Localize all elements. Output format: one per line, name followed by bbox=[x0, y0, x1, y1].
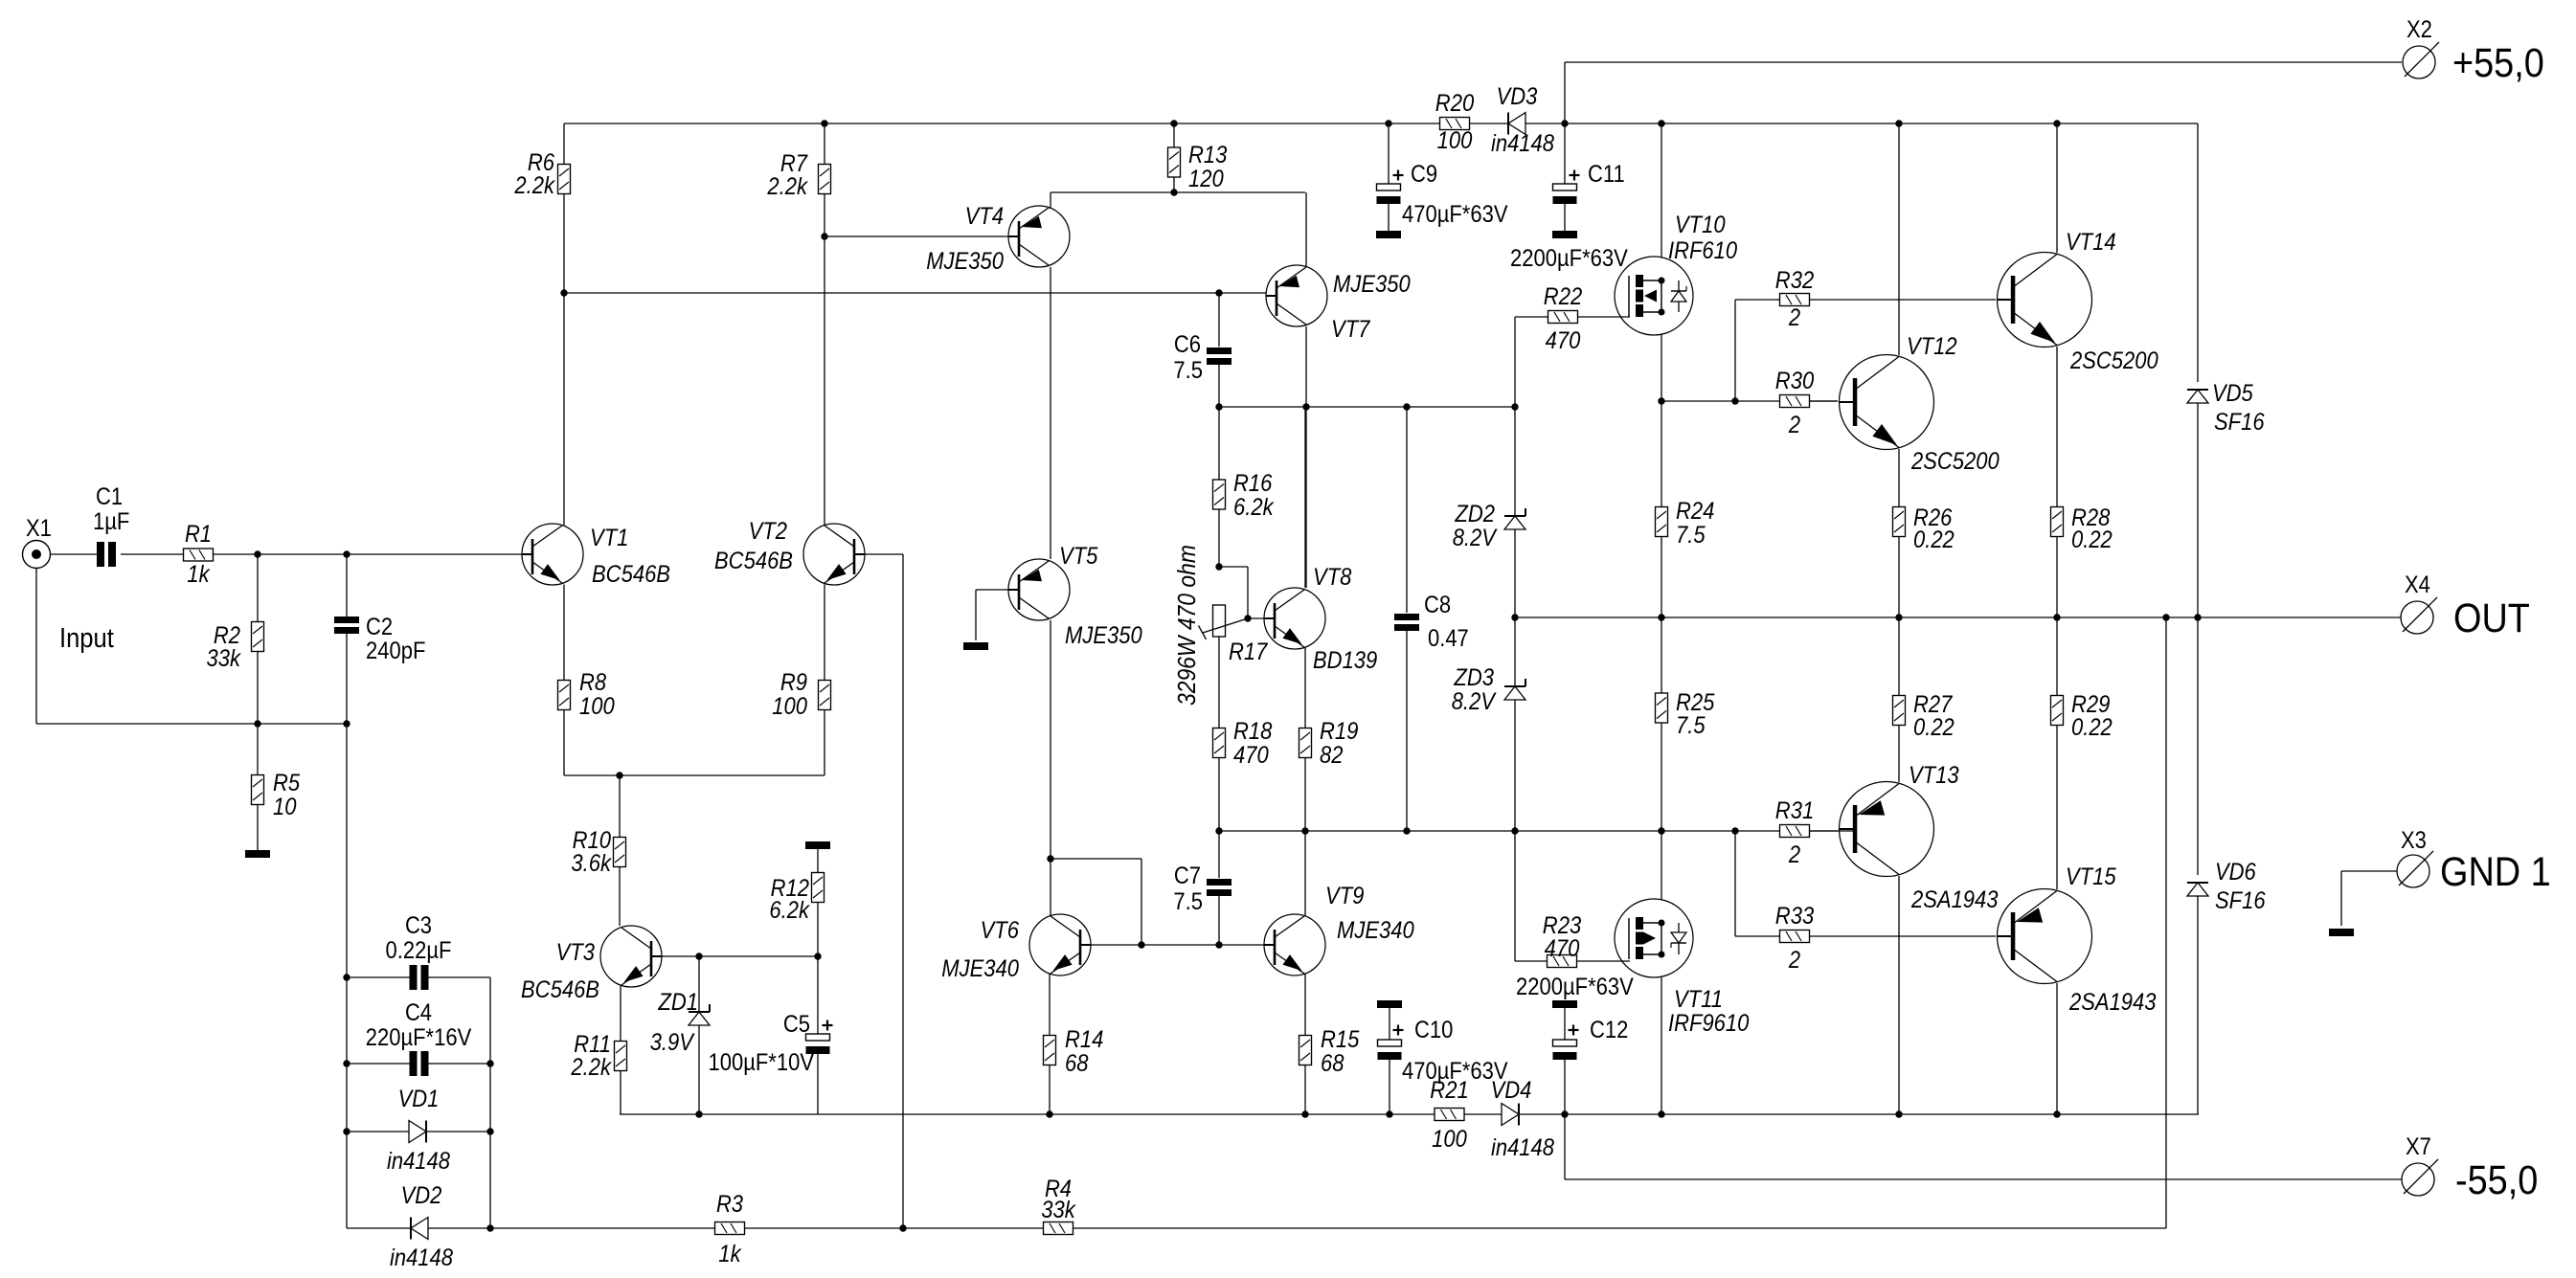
resistor R19 bbox=[1299, 718, 1359, 769]
capacitor C11 bbox=[1553, 170, 1580, 205]
svg-text:2: 2 bbox=[1788, 841, 1800, 868]
wire VT8 collector up bbox=[1304, 407, 1306, 588]
wire VT10 source down bbox=[1661, 335, 1662, 401]
resistor R12 bbox=[769, 873, 824, 925]
svg-text:BC546B: BC546B bbox=[714, 548, 793, 574]
wire VT9 emitter down bbox=[1304, 975, 1306, 1037]
wire VT3 base line bbox=[662, 955, 818, 957]
wire C8 top stub bbox=[1406, 407, 1408, 613]
node VT11 rail bbox=[1658, 1110, 1664, 1117]
wire VD5 to OUT bbox=[2197, 403, 2199, 617]
node C6 top bbox=[1215, 289, 1222, 296]
capacitor C10 bbox=[1378, 1025, 1404, 1061]
wire VT14 collector bbox=[2056, 123, 2058, 253]
wire R22 gate link bbox=[1578, 316, 1630, 318]
transistor VT13 bbox=[1840, 762, 1999, 913]
svg-text:220µF*16V: 220µF*16V bbox=[366, 1024, 472, 1051]
resistor R14 bbox=[1044, 1026, 1104, 1077]
resistor R33 bbox=[1775, 903, 1814, 974]
terminal X3 bbox=[2397, 855, 2429, 887]
wire VT1 collector up bbox=[563, 293, 565, 526]
svg-text:C3: C3 bbox=[405, 912, 432, 939]
resistor R25 bbox=[1656, 689, 1715, 739]
svg-text:VT14: VT14 bbox=[2066, 229, 2116, 256]
svg-text:C6: C6 bbox=[1174, 331, 1201, 358]
wire C2 bottom stub bbox=[346, 634, 348, 724]
svg-text:BD139: BD139 bbox=[1313, 647, 1377, 674]
diode VD5 bbox=[2187, 390, 2208, 403]
svg-text:0.22: 0.22 bbox=[1913, 714, 1955, 741]
node VT1 collector junction bbox=[560, 289, 567, 296]
svg-text:7.5: 7.5 bbox=[1173, 888, 1203, 915]
svg-text:1µF: 1µF bbox=[93, 508, 129, 535]
wire R29 top stub bbox=[2056, 617, 2058, 696]
node C7 bottom bbox=[1215, 941, 1222, 948]
svg-text:0.22: 0.22 bbox=[2071, 714, 2113, 741]
svg-text:VT5: VT5 bbox=[1059, 543, 1097, 570]
wire VT6-VT9 base line bbox=[1090, 944, 1266, 946]
svg-text:VD3: VD3 bbox=[1497, 83, 1538, 110]
svg-text:7.5: 7.5 bbox=[1676, 522, 1706, 549]
bar above C12 bbox=[1552, 1000, 1577, 1008]
node C8 bottom bbox=[1403, 827, 1410, 834]
svg-text:ZD2: ZD2 bbox=[1455, 501, 1496, 527]
wire C12 top stub bbox=[1564, 1008, 1566, 1040]
svg-text:in4148: in4148 bbox=[390, 1244, 453, 1271]
resistor R28 bbox=[2051, 504, 2113, 553]
wire ZD1 top stub bbox=[698, 956, 700, 1012]
capacitor C1 bbox=[97, 542, 116, 567]
svg-text:470: 470 bbox=[1233, 742, 1269, 769]
resistor R16 bbox=[1213, 470, 1275, 521]
wire R17 to R18 bbox=[1218, 637, 1220, 728]
wire bias rail right bbox=[1519, 1113, 2199, 1115]
svg-text:X3: X3 bbox=[2401, 827, 2427, 854]
node R3-R4 junction bbox=[899, 1224, 906, 1231]
svg-text:in4148: in4148 bbox=[1491, 130, 1554, 157]
wire R25 bottom stub bbox=[1661, 723, 1662, 831]
node R1-R2 junction bbox=[254, 550, 260, 557]
wire R24 top stub bbox=[1661, 401, 1662, 507]
wire top rail bbox=[564, 123, 2198, 124]
transistor VT15 bbox=[1998, 863, 2157, 1016]
svg-text:R16: R16 bbox=[1233, 470, 1272, 497]
svg-text:VT15: VT15 bbox=[2066, 863, 2116, 890]
wire ZD1 bottom stub bbox=[698, 1025, 700, 1114]
wire R18 bottom bbox=[1218, 758, 1220, 832]
bar below C11 bbox=[1552, 231, 1577, 238]
node C2 bottom junction bbox=[343, 720, 350, 727]
wire VT13 collector bbox=[1898, 876, 1900, 1114]
svg-text:R1: R1 bbox=[185, 521, 212, 548]
wire VT15 collector bbox=[2056, 983, 2058, 1114]
node VD1 left bbox=[343, 1128, 350, 1134]
wire R6 top stub bbox=[563, 123, 565, 165]
resistor R10 bbox=[571, 827, 625, 877]
wire VD6 to rail bbox=[2197, 896, 2199, 1114]
wire R19 bottom bbox=[1304, 758, 1306, 832]
wire VD1 row left bbox=[347, 1131, 409, 1132]
capacitor C3 bbox=[410, 965, 429, 990]
wire ZD3 top stub bbox=[1514, 617, 1516, 686]
wire emitters join bbox=[564, 774, 825, 776]
svg-text:C4: C4 bbox=[405, 999, 432, 1026]
wire tap to VT6 base column bbox=[1051, 859, 1141, 945]
svg-text:2SA1943: 2SA1943 bbox=[1910, 886, 1998, 913]
svg-text:in4148: in4148 bbox=[387, 1148, 450, 1175]
svg-text:VD2: VD2 bbox=[401, 1182, 442, 1209]
node C11 rail bbox=[1561, 120, 1568, 126]
capacitor C2 bbox=[334, 617, 359, 634]
wire VD1 row right bbox=[426, 1131, 490, 1132]
wire R8 bottom bbox=[563, 710, 565, 776]
wire rail B bbox=[1661, 400, 1838, 402]
svg-text:VT9: VT9 bbox=[1325, 883, 1364, 909]
wire C6 bottom stub bbox=[1218, 365, 1220, 407]
transistor VT6 bbox=[941, 914, 1091, 982]
transistor VT12 bbox=[1840, 333, 2000, 475]
wire R32 riser bbox=[1735, 300, 1780, 401]
node R15 rail bbox=[1301, 1110, 1308, 1117]
node base line left bbox=[1138, 941, 1144, 948]
wire ZD2 top stub bbox=[1514, 407, 1516, 516]
svg-text:470µF*63V: 470µF*63V bbox=[1402, 1058, 1508, 1085]
svg-text:VD5: VD5 bbox=[2212, 380, 2253, 407]
transistor VT14 bbox=[1998, 229, 2158, 374]
wire VD5 column top bbox=[2197, 123, 2199, 382]
wire R10 top stub bbox=[619, 775, 621, 838]
wire C8 bottom stub bbox=[1406, 631, 1408, 831]
svg-text:VT6: VT6 bbox=[981, 917, 1019, 944]
svg-text:R17: R17 bbox=[1229, 639, 1268, 665]
mosfet VT11 bbox=[1615, 899, 1749, 1037]
node C10 rail bbox=[1386, 1110, 1392, 1117]
svg-text:7.5: 7.5 bbox=[1173, 357, 1203, 384]
svg-text:-55,0: -55,0 bbox=[2455, 1157, 2538, 1203]
node R14 rail bbox=[1046, 1110, 1052, 1117]
node VT13 rail bbox=[1895, 1110, 1902, 1117]
terminal X4 bbox=[2401, 572, 2530, 641]
node VD1 right bbox=[486, 1128, 493, 1134]
wire R13 bottom stub bbox=[1173, 177, 1175, 192]
svg-text:2: 2 bbox=[1788, 947, 1800, 974]
resistor R13 bbox=[1168, 142, 1228, 192]
svg-text:3.9V: 3.9V bbox=[650, 1029, 695, 1056]
wire VT2 collector up bbox=[824, 236, 825, 526]
wire X3 to ground bbox=[2341, 871, 2397, 926]
zener ZD2 bbox=[1504, 508, 1525, 529]
resistor R15 bbox=[1299, 1026, 1360, 1077]
node trimmer top bbox=[1215, 563, 1222, 570]
zener ZD1 bbox=[689, 1004, 710, 1025]
wire R14 bottom bbox=[1049, 1065, 1051, 1115]
wire R25 top stub bbox=[1661, 617, 1662, 693]
svg-text:C5: C5 bbox=[783, 1011, 810, 1038]
svg-text:Input: Input bbox=[59, 623, 114, 654]
svg-text:2: 2 bbox=[1788, 304, 1800, 331]
wire R5 top stub bbox=[257, 724, 259, 775]
svg-text:100µF*10V: 100µF*10V bbox=[709, 1049, 815, 1076]
svg-text:VT12: VT12 bbox=[1907, 333, 1957, 360]
node R2 bottom junction bbox=[254, 720, 260, 727]
wire mid rail A bbox=[1219, 406, 1515, 408]
svg-text:VT10: VT10 bbox=[1675, 212, 1726, 238]
wire R11 bottom bbox=[620, 1071, 621, 1115]
svg-text:R14: R14 bbox=[1065, 1026, 1103, 1053]
bar below C9 bbox=[1376, 231, 1401, 238]
diode VD3 bbox=[1508, 113, 1525, 135]
wire R22 left drop bbox=[1515, 317, 1548, 407]
wire R28 bottom bbox=[2056, 537, 2058, 618]
resistor R7 bbox=[767, 150, 831, 200]
transistor VT3 bbox=[521, 926, 662, 1003]
svg-text:R3: R3 bbox=[716, 1191, 743, 1218]
wire R1 to VT1 base bbox=[214, 553, 523, 555]
terminal X2 bbox=[2403, 16, 2544, 86]
node C9 rail bbox=[1385, 120, 1391, 126]
wire R23 left riser bbox=[1515, 831, 1547, 961]
node R25 bottom bbox=[1658, 827, 1664, 834]
node C4 left bbox=[343, 1060, 350, 1066]
wire R27 bottom stub bbox=[1898, 726, 1900, 783]
wire VT4 emitter up bbox=[1050, 192, 1051, 209]
wire R7 top stub bbox=[824, 123, 825, 165]
wire VT1 collector to VT7 base bbox=[564, 292, 1266, 294]
resistor R18 bbox=[1213, 718, 1273, 769]
wire VT11 drain down bbox=[1661, 977, 1662, 1114]
trimmer R17 bbox=[1213, 605, 1226, 637]
svg-text:2200µF*63V: 2200µF*63V bbox=[1516, 974, 1634, 1000]
svg-text:100: 100 bbox=[1437, 127, 1473, 154]
node R18 bottom bbox=[1215, 827, 1222, 834]
svg-text:1k: 1k bbox=[718, 1241, 742, 1267]
svg-text:MJE350: MJE350 bbox=[1065, 622, 1142, 649]
node VT15 rail bbox=[2053, 1110, 2060, 1117]
resistor R27 bbox=[1893, 691, 1955, 741]
node OUT-ZD bbox=[1511, 614, 1518, 620]
wire VT10 drain bbox=[1661, 123, 1662, 258]
svg-text:C12: C12 bbox=[1590, 1017, 1628, 1043]
svg-text:R22: R22 bbox=[1544, 283, 1582, 310]
svg-text:1k: 1k bbox=[187, 561, 211, 588]
svg-text:C7: C7 bbox=[1174, 863, 1201, 889]
svg-text:2.2k: 2.2k bbox=[571, 1054, 613, 1081]
zener ZD3 bbox=[1504, 679, 1525, 700]
svg-text:470µF*63V: 470µF*63V bbox=[1402, 201, 1508, 228]
wire R16 top stub bbox=[1218, 407, 1220, 480]
svg-text:ZD1: ZD1 bbox=[658, 989, 698, 1016]
wire X1 ground drop bbox=[36, 569, 348, 725]
node ZD1 rail bbox=[695, 1110, 702, 1117]
node OUT-R24 bbox=[1658, 614, 1664, 620]
node R12-C5 bbox=[814, 953, 821, 959]
resistor R5 bbox=[252, 770, 301, 820]
wire R15 bottom bbox=[1304, 1065, 1306, 1115]
wire VD6 column top bbox=[2197, 617, 2199, 875]
wire mid rail B bbox=[1219, 830, 1853, 832]
node ZD1 top bbox=[695, 953, 702, 959]
resistor R32 bbox=[1775, 267, 1814, 331]
wire R6 bottom bbox=[563, 194, 565, 294]
wire VT7 emitter up bbox=[1305, 192, 1307, 267]
wire ladder right side bbox=[489, 977, 491, 1228]
node C12 rail bbox=[1561, 1110, 1568, 1117]
svg-text:8.2V: 8.2V bbox=[1453, 525, 1498, 551]
power bar above R12 bbox=[805, 841, 830, 849]
svg-text:MJE350: MJE350 bbox=[926, 248, 1004, 275]
wire OUT rail bbox=[1515, 617, 2401, 618]
resistor R29 bbox=[2051, 691, 2113, 741]
svg-text:C10: C10 bbox=[1414, 1017, 1453, 1043]
svg-text:OUT: OUT bbox=[2453, 595, 2530, 641]
ground at X3 bbox=[2329, 929, 2354, 936]
svg-text:8.2V: 8.2V bbox=[1452, 688, 1497, 715]
node C4 right bbox=[486, 1060, 493, 1066]
wire R26 bottom bbox=[1898, 537, 1900, 618]
wire C10 bottom stub bbox=[1389, 1060, 1390, 1114]
connector X1 bbox=[23, 541, 51, 569]
wire R2 top stub bbox=[257, 554, 259, 621]
wire VT2 emitter to R9 bbox=[824, 585, 825, 682]
wire VT5 collector down bbox=[1050, 620, 1051, 916]
svg-text:68: 68 bbox=[1321, 1050, 1344, 1077]
wire VD2 row left bbox=[347, 1227, 410, 1229]
svg-text:100: 100 bbox=[772, 693, 807, 720]
svg-text:470: 470 bbox=[1545, 935, 1580, 962]
node ZD3 bottom bbox=[1511, 827, 1518, 834]
transistor VT5 bbox=[1008, 543, 1142, 649]
svg-text:MJE340: MJE340 bbox=[941, 955, 1019, 982]
wire C4 row right bbox=[428, 1063, 490, 1065]
wire C11 top stub bbox=[1564, 123, 1566, 184]
wire C5 bottom stub bbox=[817, 1054, 819, 1114]
node OUT-R28 bbox=[2053, 614, 2060, 620]
node ZD2 top junction bbox=[1511, 403, 1518, 410]
wire R9 bottom bbox=[824, 710, 825, 776]
wire C1 to R1 bbox=[121, 553, 183, 555]
node VT10 source bbox=[1658, 397, 1664, 404]
svg-text:VT2: VT2 bbox=[749, 518, 787, 545]
wire R24 bottom stub bbox=[1661, 537, 1662, 618]
svg-text:0.47: 0.47 bbox=[1428, 625, 1469, 652]
wire ZD2 bottom stub bbox=[1514, 529, 1516, 617]
resistor R24 bbox=[1656, 498, 1715, 549]
wire R30 to VT12 base bbox=[1810, 400, 1838, 402]
resistor R26 bbox=[1893, 504, 1955, 553]
wire R7 bottom bbox=[824, 194, 825, 237]
svg-text:X4: X4 bbox=[2405, 572, 2430, 598]
svg-text:VD1: VD1 bbox=[398, 1086, 440, 1112]
wire R31 to VT13 base bbox=[1810, 830, 1838, 832]
svg-text:R13: R13 bbox=[1188, 142, 1227, 168]
resistor R21 bbox=[1430, 1077, 1468, 1153]
svg-text:ZD3: ZD3 bbox=[1454, 664, 1495, 691]
diode VD2 bbox=[411, 1218, 428, 1240]
wire R5 to ground bbox=[257, 805, 259, 851]
capacitor C6 bbox=[1207, 348, 1232, 365]
node R32 tap bbox=[1731, 397, 1738, 404]
svg-text:X7: X7 bbox=[2406, 1133, 2431, 1160]
svg-text:6.2k: 6.2k bbox=[769, 897, 810, 924]
terminal X7 bbox=[2402, 1133, 2538, 1203]
svg-text:2SA1943: 2SA1943 bbox=[2068, 989, 2156, 1016]
wire C2 node down to ladder bbox=[346, 724, 348, 1228]
node R13 bottom bbox=[1170, 189, 1177, 195]
capacitor C7 bbox=[1207, 879, 1232, 896]
wire R27 top stub bbox=[1898, 617, 1900, 696]
wire ZD3 bottom stub bbox=[1514, 700, 1516, 831]
svg-text:2200µF*63V: 2200µF*63V bbox=[1510, 245, 1628, 272]
wire C10 top stub bbox=[1389, 1008, 1390, 1040]
svg-text:in4148: in4148 bbox=[1491, 1134, 1554, 1161]
svg-text:100: 100 bbox=[1432, 1126, 1467, 1153]
svg-text:82: 82 bbox=[1320, 742, 1344, 769]
wire R21 to VD4 bbox=[1464, 1113, 1502, 1115]
node R7 top bbox=[821, 120, 827, 126]
wire C3 row left bbox=[347, 976, 410, 978]
svg-text:R24: R24 bbox=[1676, 498, 1714, 525]
wire R2 bottom stub bbox=[257, 652, 259, 724]
svg-text:120: 120 bbox=[1188, 166, 1224, 192]
wire C3 row right bbox=[428, 976, 490, 978]
svg-text:GND 1: GND 1 bbox=[2440, 849, 2551, 895]
svg-text:R9: R9 bbox=[780, 669, 807, 696]
wire C12 to X7 bbox=[1565, 1114, 2402, 1179]
svg-text:C11: C11 bbox=[1588, 161, 1625, 188]
wire feedback drop bbox=[2165, 617, 2167, 1228]
svg-text:C8: C8 bbox=[1424, 592, 1451, 618]
node VT10 drain rail bbox=[1658, 120, 1664, 126]
diode VD4 bbox=[1502, 1104, 1519, 1126]
resistor R4 bbox=[1041, 1176, 1076, 1235]
wire R13 top stub bbox=[1173, 123, 1175, 147]
svg-text:33k: 33k bbox=[1041, 1197, 1076, 1223]
svg-text:0.22: 0.22 bbox=[2071, 527, 2113, 553]
wire R29 bottom stub bbox=[2056, 726, 2058, 890]
resistor R1 bbox=[184, 521, 214, 588]
node R13 rail bbox=[1170, 120, 1177, 126]
node R10 tap bbox=[616, 772, 622, 778]
svg-text:3.6k: 3.6k bbox=[571, 850, 612, 877]
wire C11 bottom stub bbox=[1564, 204, 1566, 231]
svg-text:VT13: VT13 bbox=[1909, 762, 1959, 789]
node R31 tap bbox=[1731, 827, 1738, 834]
svg-text:3296W 470 ohm: 3296W 470 ohm bbox=[1172, 545, 1201, 706]
svg-text:X2: X2 bbox=[2407, 16, 2432, 43]
svg-text:R5: R5 bbox=[273, 770, 300, 796]
transistor VT9 bbox=[1264, 883, 1414, 975]
wire R32 to VT14 base bbox=[1810, 299, 1996, 301]
svg-text:C2: C2 bbox=[366, 614, 393, 640]
node wiper-base bbox=[1244, 615, 1251, 621]
wire C6 top stub bbox=[1218, 293, 1220, 347]
svg-text:2: 2 bbox=[1788, 412, 1800, 438]
wire trimmer top link bbox=[1219, 567, 1248, 618]
svg-text:R33: R33 bbox=[1775, 903, 1814, 930]
resistor R31 bbox=[1775, 797, 1814, 868]
wire VT12 emitter bbox=[1898, 449, 1900, 507]
diode VD1 bbox=[409, 1121, 426, 1143]
svg-text:VT7: VT7 bbox=[1331, 316, 1370, 343]
wire C2 top stub bbox=[346, 554, 348, 617]
node VD2 right bbox=[486, 1224, 493, 1231]
wire R23 gate link bbox=[1577, 960, 1630, 962]
node OUT-feedback bbox=[2162, 614, 2169, 620]
svg-text:BC546B: BC546B bbox=[521, 976, 599, 1003]
svg-text:VT4: VT4 bbox=[965, 203, 1004, 230]
resistor R23 bbox=[1543, 912, 1581, 968]
wire R12 top stub bbox=[817, 849, 819, 873]
